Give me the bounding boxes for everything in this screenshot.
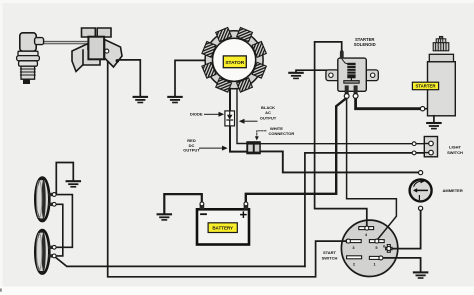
starter label <box>412 82 438 90</box>
start switch terminals <box>346 226 392 260</box>
wire: headlight daisy chain lower <box>56 204 63 256</box>
spark plug <box>17 33 44 84</box>
ignition coil body <box>88 37 104 60</box>
start switch label <box>322 250 338 260</box>
wire: battery plus cable to solenoid left stud <box>246 99 345 204</box>
ammeter <box>410 171 432 211</box>
starter solenoid <box>326 50 378 99</box>
svg-text:OUTPUT: OUTPUT <box>183 148 200 153</box>
light switch label <box>447 145 463 155</box>
headlight 2 <box>35 230 56 275</box>
ground: switch <box>414 272 427 278</box>
wire: stator left to ground <box>175 60 205 96</box>
black AC output label <box>239 105 277 124</box>
battery label <box>208 223 237 233</box>
svg-text:START: START <box>323 250 337 255</box>
wire: spark plug HT lead <box>43 41 89 44</box>
svg-text:SWITCH: SWITCH <box>322 256 338 261</box>
white connector label <box>255 126 295 141</box>
ground: solenoid <box>289 73 302 79</box>
ignition coil lower bracket <box>83 50 100 65</box>
start switch terminal numbers <box>352 232 386 266</box>
battery <box>197 202 249 245</box>
svg-text:LIGHT: LIGHT <box>449 145 462 150</box>
ground: battery <box>158 214 171 220</box>
ignition coil ground dot <box>116 59 120 63</box>
ground: stator <box>168 97 181 103</box>
wire: DC output from connector to ammeter top <box>261 151 421 172</box>
stator inner circle <box>213 38 256 81</box>
white connector <box>246 141 260 154</box>
svg-text:SOLENOID: SOLENOID <box>354 42 376 47</box>
ignition coil U-core <box>82 28 112 37</box>
svg-text:AMMETER: AMMETER <box>443 188 463 193</box>
svg-text:SWITCH: SWITCH <box>447 150 463 155</box>
wire: AC output from connector to light switch <box>261 143 430 145</box>
wire: coil ground <box>117 60 140 96</box>
ground: headlights <box>67 181 80 187</box>
starter motor <box>428 36 456 122</box>
wire: solenoid coil terminal to switch terminal 4 <box>315 42 367 227</box>
wire: switch terminal 1 to ground <box>381 258 421 272</box>
stator poles <box>192 18 276 102</box>
svg-text:CONNECTOR: CONNECTOR <box>269 131 295 136</box>
wire: stator red DC output through diode to connector <box>230 88 247 152</box>
stator label <box>223 56 246 68</box>
wire: headlight daisy chain upper <box>56 195 72 248</box>
wire: solenoid battery stud to switch terminal 5 <box>347 98 397 240</box>
headlight 1 <box>35 177 56 222</box>
wire: coil kill wire to switch terminal 3 <box>108 54 349 277</box>
wire: solenoid to starter heavy cable <box>356 98 423 109</box>
svg-text:OUTPUT: OUTPUT <box>260 115 277 120</box>
wire: ammeter bottom to switch terminal 6 <box>389 208 421 248</box>
starter solenoid label <box>354 37 376 47</box>
stator ring <box>205 31 263 89</box>
svg-text:DIODE: DIODE <box>190 111 203 116</box>
svg-text:STATOR: STATOR <box>225 60 244 66</box>
start switch body (under wires) <box>341 220 397 276</box>
ignition coil right wing <box>105 40 123 68</box>
ground: coil <box>134 97 147 103</box>
svg-text:BATTERY: BATTERY <box>212 226 233 231</box>
wire: battery minus to ground <box>164 194 202 213</box>
diode label <box>190 111 224 116</box>
red DC output label <box>183 138 227 152</box>
ignition coil left wing <box>72 44 88 72</box>
svg-text:STARTER: STARTER <box>416 84 437 89</box>
terminal: starter cable lug <box>420 107 428 111</box>
diode D1 <box>225 111 235 126</box>
wire: solenoid frame to ground <box>296 70 327 72</box>
ground: starter <box>427 123 440 129</box>
wire: light switch lower to headlights <box>305 153 429 267</box>
wire: headlight 1 to ground loop <box>56 163 73 194</box>
light switch <box>412 137 437 157</box>
ignition coil kill terminal <box>105 49 109 53</box>
svg-text:WHITE: WHITE <box>270 126 283 131</box>
wire: stator black AC output to connector <box>237 88 247 144</box>
wire: headlight feed horizontal <box>56 257 305 266</box>
